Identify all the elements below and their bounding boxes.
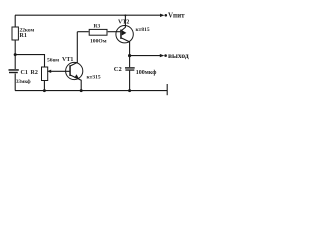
VT2 base bar [120, 30, 122, 39]
transistor VT2 [116, 26, 133, 43]
svg-text:VT1: VT1 [62, 57, 73, 63]
terminal tick ground output [166, 84, 168, 95]
VT2 emitter arrowhead [122, 30, 127, 35]
arrowhead R2 wiper [47, 70, 51, 73]
wire R2 wiper to VT1 base [49, 70, 70, 72]
wire R3 to VT2 base [108, 31, 121, 33]
svg-text:VT2: VT2 [118, 20, 129, 26]
wire R2 bottom to rail [43, 81, 45, 91]
resistor R1 [12, 27, 18, 40]
svg-text:100Ом: 100Ом [90, 39, 107, 45]
svg-text:Vпит: Vпит [168, 12, 185, 20]
wire output node to C2 [129, 56, 131, 68]
resistor R3 [89, 29, 107, 35]
wire C2 bottom to rail [129, 71, 131, 91]
wire collector to R3 [77, 31, 88, 33]
terminal dot vyhod [164, 54, 167, 57]
wire top supply rail [15, 14, 162, 16]
node dot VT1 emitter bottom [80, 89, 83, 92]
node dot C2 bottom [128, 89, 131, 92]
svg-text:C1: C1 [21, 70, 28, 76]
svg-text:100мкф: 100мкф [136, 69, 157, 76]
VT1 base bar [69, 65, 71, 76]
capacitor C1 [9, 69, 19, 71]
arrowhead Vpit [160, 14, 165, 17]
svg-text:R1: R1 [20, 33, 27, 39]
wire VT1 emitter down [70, 75, 81, 91]
node dot left [14, 53, 17, 56]
svg-text:кт315: кт315 [87, 74, 101, 80]
svg-text:кт815: кт815 [136, 27, 150, 33]
svg-text:выход: выход [168, 51, 189, 60]
wire branch to R2 [15, 55, 44, 67]
svg-text:33мкф: 33мкф [16, 80, 31, 85]
node dot output junction [128, 54, 131, 57]
transistor VT1 [66, 62, 83, 79]
wire VT2 collector to rail [121, 15, 125, 31]
arrowhead vyhod [160, 54, 165, 57]
svg-text:C2: C2 [114, 66, 122, 73]
node dot R2 bottom [43, 89, 46, 92]
wire R1 to node [14, 40, 16, 69]
resistor R2 variable [42, 67, 48, 81]
wire VT1 collector up [70, 32, 77, 66]
wire VT2 emitter down [121, 38, 130, 56]
svg-text:56ом: 56ом [47, 58, 59, 64]
wire output horizontal [130, 55, 162, 57]
capacitor C2 [125, 67, 135, 68]
svg-text:R2: R2 [31, 70, 38, 76]
VT1 emitter arrowhead [74, 74, 79, 79]
wire bottom ground rail [15, 90, 167, 92]
svg-text:R3: R3 [94, 24, 101, 30]
terminal dot Vpit [165, 14, 168, 17]
wire left vertical [14, 15, 16, 27]
node dot VT2 collector at rail [124, 14, 126, 16]
wire node to C1 to ground [14, 74, 16, 91]
